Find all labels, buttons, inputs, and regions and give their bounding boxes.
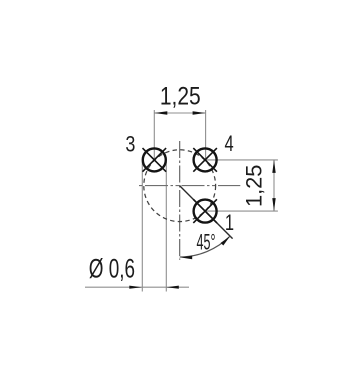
wire: top dimension extension line from pin 4 — [205, 110, 207, 160]
wire: arc arrowhead at 45 line — [221, 236, 230, 245]
contact pin 3 cross — [143, 148, 167, 172]
right dimension arrowhead bottom — [272, 198, 275, 211]
contact pin 1 circle — [194, 200, 217, 223]
node: vertical centerline — [179, 141, 181, 260]
right dimension arrowhead top — [272, 160, 275, 173]
wire: bottom dimension line for diameter 0,6 — [85, 286, 189, 288]
contact pin 3 circle — [143, 148, 166, 171]
wire: top dimension extension line from pin 3 — [153, 110, 155, 160]
wire: bottom dimension right extension (tangent to pin 3) — [165, 161, 167, 292]
label: dimension text diameter 0,6 — [89, 253, 135, 283]
wire: bottom dimension left extension (tangent to pin 3) — [141, 161, 143, 292]
top dimension arrowhead left — [154, 111, 167, 114]
svg-text:1,25: 1,25 — [241, 165, 266, 207]
node: dashed pitch circle — [144, 150, 216, 222]
wire: arc arrowhead left at centerline — [180, 256, 192, 260]
contact pin 1 cross — [193, 199, 217, 223]
wire: right dimension extension line from pin 4 — [205, 159, 278, 161]
top dimension arrowhead right — [193, 111, 206, 114]
label: pin number 1 — [225, 211, 234, 236]
contact pin 4 circle — [194, 148, 217, 171]
svg-text:3: 3 — [125, 133, 135, 157]
contact pin 4 cross — [193, 148, 217, 172]
label: dimension text 1,25 right (rotated) — [241, 165, 266, 207]
label: pin number 4 — [225, 132, 234, 157]
svg-text:1: 1 — [225, 211, 234, 236]
wire: top dimension line 1,25 — [154, 112, 205, 114]
label: pin number 3 — [125, 133, 135, 157]
svg-text:Ø 0,6: Ø 0,6 — [89, 253, 135, 283]
node: horizontal centerline — [139, 185, 240, 187]
svg-text:45°: 45° — [197, 230, 216, 255]
wire: 45 degree construction line — [180, 186, 233, 239]
wire: angular dimension arc 45 — [180, 236, 230, 257]
wire: right dimension extension line from pin 1 — [205, 210, 278, 212]
bottom dimension arrowhead pointing left at x=166.3 — [166, 286, 179, 289]
svg-text:1,25: 1,25 — [160, 82, 201, 110]
label: dimension text 1,25 top — [160, 82, 201, 110]
label: angle text 45 degrees — [197, 230, 216, 255]
svg-text:4: 4 — [225, 132, 234, 157]
bottom dimension arrowhead pointing right at x=142.3 — [129, 286, 142, 289]
wire: right dimension line 1,25 — [273, 160, 275, 211]
